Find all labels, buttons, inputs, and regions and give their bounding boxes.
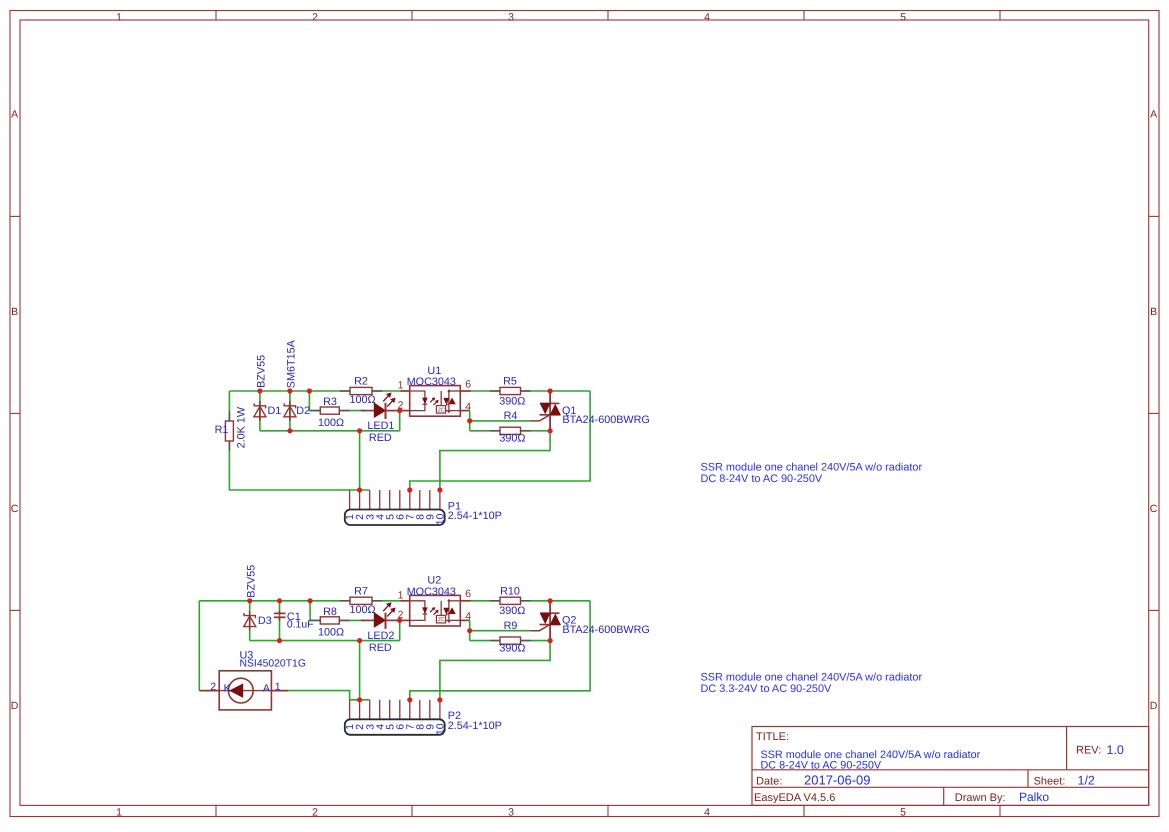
wire: LED2 cathode drop (399, 620, 401, 640)
svg-text:4: 4 (704, 11, 710, 23)
svg-text:390Ω: 390Ω (499, 395, 525, 407)
svg-text:RED: RED (369, 432, 392, 444)
svg-text:2.0K 1W: 2.0K 1W (236, 406, 248, 448)
wire: U1 pin4 stub (460, 410, 469, 412)
svg-text:R4: R4 (504, 410, 518, 422)
wire: pin2 drop to P2 (359, 641, 361, 700)
svg-text:1: 1 (398, 589, 404, 601)
current regulator diode U3 NSI45020T1G (199, 671, 288, 710)
svg-text:DC 8-24V to AC 90-250V: DC 8-24V to AC 90-250V (761, 759, 882, 771)
wire: pin1 stub of U1 (400, 390, 410, 392)
svg-text:Drawn By:: Drawn By: (955, 792, 1006, 804)
wire: U2 pin6 stub (460, 600, 471, 602)
wire: C1 branch (279, 601, 281, 641)
svg-text:390Ω: 390Ω (499, 605, 525, 617)
svg-text:3: 3 (508, 11, 514, 23)
resistor R2 100&#937; (340, 387, 382, 394)
svg-text:1.0: 1.0 (1107, 743, 1124, 757)
svg-text:BTA24-600BWRG: BTA24-600BWRG (562, 624, 649, 636)
optocoupler U1 MOC3043 (410, 386, 461, 417)
P1 pin numbers 1-10 (345, 513, 446, 525)
wire: gate row to Q1 (470, 420, 531, 422)
svg-text:Palko: Palko (1019, 790, 1049, 804)
wire: U2 pin6 to R10 to triac (471, 600, 590, 602)
svg-text:D: D (1150, 700, 1158, 712)
svg-text:2.54-1*10P: 2.54-1*10P (448, 510, 502, 522)
resistor R3 100&#937; (310, 407, 349, 414)
svg-text:1: 1 (116, 807, 122, 819)
wire: R9 row (470, 640, 550, 642)
svg-text:2.54-1*10P: 2.54-1*10P (448, 720, 502, 732)
triac Q2 BTA24-600BWRG (530, 601, 560, 641)
resistor R1 2.0K 1W (225, 412, 233, 451)
svg-text:D1: D1 (268, 405, 282, 417)
svg-text:ZC: ZC (438, 617, 445, 623)
svg-text:Date:: Date: (756, 775, 782, 787)
resistor R7 100&#937; (340, 597, 382, 604)
zener diode D1 BZV55 (254, 401, 266, 421)
svg-text:RED: RED (369, 642, 392, 654)
svg-text:R7: R7 (354, 585, 368, 597)
svg-text:100Ω: 100Ω (318, 417, 344, 429)
svg-text:DC 8-24V to AC 90-250V: DC 8-24V to AC 90-250V (701, 473, 823, 485)
wire: pin2 drop to P1 (359, 431, 361, 490)
wire: D1 branch (259, 391, 261, 431)
svg-text:1: 1 (116, 11, 122, 23)
svg-text:D2: D2 (296, 405, 310, 417)
header connector P2 2.54-1*10P (345, 700, 445, 735)
svg-text:4: 4 (704, 807, 710, 819)
wire: Q2 MT1 to P2 pin 10 (440, 641, 550, 700)
zener diode D2 SM6T15A (284, 401, 296, 421)
svg-text:EasyEDA V4.5.6: EasyEDA V4.5.6 (754, 792, 835, 804)
svg-text:A: A (11, 109, 18, 121)
svg-text:1/2: 1/2 (1078, 774, 1095, 788)
wire: U1 pin2 stub (400, 410, 410, 412)
svg-text:BTA24-600BWRG: BTA24-600BWRG (562, 414, 649, 426)
wire: top positive rail circuit 2 (199, 600, 400, 602)
svg-text:4: 4 (465, 611, 471, 623)
wire: R8 branch from top rail (310, 601, 365, 621)
note: SSR module description circuit 2 (701, 671, 923, 695)
wire: U3 output to P2 pin 1 (288, 691, 350, 700)
P2 pin numbers 1-10 (345, 723, 446, 735)
svg-text:10: 10 (435, 723, 446, 735)
svg-text:100Ω: 100Ω (318, 627, 344, 639)
optocoupler U2 MOC3043 (410, 595, 461, 626)
wire: left input rail circuit 1 (229, 391, 369, 490)
wire: D3 branch (249, 601, 251, 641)
svg-text:B: B (11, 306, 18, 318)
svg-text:R1: R1 (215, 424, 229, 436)
svg-text:ZC: ZC (438, 407, 445, 413)
svg-text:C: C (11, 503, 19, 515)
svg-text:SSR module one chanel 240V/5A: SSR module one chanel 240V/5A w/o radiat… (701, 461, 923, 473)
svg-text:DC 3.3-24V to AC 90-250V: DC 3.3-24V to AC 90-250V (701, 683, 832, 695)
LED1 RED (361, 393, 400, 419)
wire: U1 pin6 stub (460, 390, 471, 392)
U1 pin numbers 1 2 6 4 (398, 378, 472, 413)
svg-text:A: A (263, 682, 270, 694)
wire: Q1 MT1 to P1 pin 10 (440, 431, 550, 490)
svg-text:390Ω: 390Ω (499, 642, 525, 654)
wire: U2 pin2 stub (400, 619, 410, 621)
wire: lower clamp rail circuit 2 (250, 640, 400, 642)
svg-text:2: 2 (210, 681, 216, 693)
svg-text:A: A (1150, 109, 1157, 121)
svg-text:Sheet:: Sheet: (1034, 775, 1066, 787)
svg-text:0.1uF: 0.1uF (287, 620, 314, 631)
svg-text:R2: R2 (354, 376, 368, 388)
resistor R5 390&#937; (490, 387, 531, 394)
svg-text:6: 6 (465, 588, 471, 600)
svg-text:BZV55: BZV55 (245, 565, 257, 598)
svg-text:K: K (224, 682, 231, 694)
svg-text:100Ω: 100Ω (349, 604, 375, 616)
title block values (761, 743, 1124, 804)
svg-text:1: 1 (398, 380, 404, 392)
wire: U2 pin4 stub (460, 619, 469, 621)
svg-text:R9: R9 (504, 620, 518, 632)
svg-text:3: 3 (508, 807, 514, 819)
wire: D2 branch (289, 391, 291, 431)
resistor R8 100&#937; (310, 617, 349, 624)
title block (752, 727, 1149, 806)
svg-text:NSI45020T1G: NSI45020T1G (240, 658, 306, 669)
svg-text:U2: U2 (427, 575, 441, 587)
svg-text:2: 2 (312, 11, 318, 23)
wire: AC line from node to P1 pin 7 (410, 391, 590, 490)
svg-text:1: 1 (275, 681, 281, 693)
U2 pin numbers 1 2 6 4 (398, 588, 472, 623)
resistor R9 390&#937; (490, 637, 531, 644)
svg-text:6: 6 (465, 378, 471, 390)
svg-text:REV:: REV: (1076, 745, 1101, 757)
wire: pin1 stub of U2 (400, 600, 410, 602)
resistor R10 390&#937; (490, 597, 531, 604)
svg-text:LED2: LED2 (367, 630, 394, 642)
wire: P2 pins 1-3 rail (350, 699, 370, 701)
svg-text:MOC3043: MOC3043 (407, 376, 456, 388)
wire: U1 pin4 branch (469, 411, 471, 431)
wire: AC line from node to P2 pin 7 (410, 601, 590, 700)
svg-text:SSR module one chanel 240V/5A: SSR module one chanel 240V/5A w/o radiat… (701, 671, 923, 683)
title block labels (754, 731, 1101, 804)
triac Q1 BTA24-600BWRG (530, 391, 560, 431)
wire: top positive rail circuit 1 (229, 390, 400, 392)
svg-text:2017-06-09: 2017-06-09 (804, 773, 871, 788)
svg-text:10: 10 (435, 513, 446, 525)
wire: U1 pin6 to R5 to triac (471, 390, 590, 392)
svg-text:2: 2 (312, 807, 318, 819)
wire: gate row to Q2 (470, 630, 531, 632)
svg-text:U1: U1 (427, 365, 441, 377)
LED2 RED (361, 603, 400, 629)
junction dots circuit 1 (257, 388, 552, 492)
svg-text:4: 4 (465, 401, 471, 413)
svg-text:MOC3043: MOC3043 (407, 586, 456, 598)
wire: R3 branch from top rail (309, 391, 365, 411)
resistor R4 390&#937; (490, 427, 531, 434)
svg-text:D: D (11, 700, 19, 712)
svg-text:LED1: LED1 (367, 420, 394, 432)
svg-text:SM6T15A: SM6T15A (286, 339, 298, 388)
junction dots circuit 2 (247, 598, 553, 702)
capacitor C1 0.1uF (274, 611, 286, 621)
wire: U2 pin4 branch (469, 620, 471, 640)
svg-text:C: C (1150, 503, 1158, 515)
note: SSR module description circuit 1 (701, 461, 923, 485)
header connector P1 2.54-1*10P (345, 490, 445, 525)
svg-text:390Ω: 390Ω (499, 433, 525, 445)
svg-text:B: B (1150, 306, 1157, 318)
wire: R4 row (470, 430, 550, 432)
svg-text:R3: R3 (323, 396, 337, 408)
svg-text:TITLE:: TITLE: (756, 731, 789, 743)
svg-text:BZV55: BZV55 (256, 355, 268, 388)
svg-text:R8: R8 (323, 606, 337, 618)
svg-text:5: 5 (900, 807, 906, 819)
wire: lower clamp rail circuit 1 (260, 430, 400, 432)
svg-text:100Ω: 100Ω (349, 394, 375, 406)
zener diode D3 BZV55 (244, 611, 256, 631)
wire: left input rail circuit 2 (198, 601, 200, 691)
wire: LED1 cathode drop (399, 411, 401, 431)
svg-text:R10: R10 (500, 585, 520, 597)
svg-text:5: 5 (900, 11, 906, 23)
svg-text:R5: R5 (503, 376, 517, 388)
svg-text:D3: D3 (258, 615, 272, 627)
